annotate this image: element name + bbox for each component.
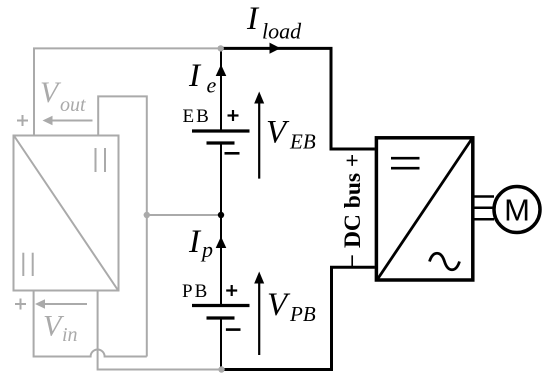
arrow I_p: [216, 237, 227, 249]
motor M1 circle: [494, 187, 540, 233]
svg-text:load: load: [262, 19, 302, 44]
node midpoint junction (black dot): [218, 212, 224, 218]
arrow I_e: [216, 65, 227, 77]
svg-text:M: M: [504, 193, 530, 228]
inverter U2 body: [376, 138, 472, 280]
node bottom junction (gray dot): [218, 366, 224, 372]
arrow V_PB: [254, 272, 264, 356]
svg-text:I: I: [246, 1, 260, 37]
wire phase C inverter to motor: [475, 218, 495, 221]
wire converter input+ with hop: [34, 291, 147, 357]
arrow V_EB: [254, 92, 264, 179]
label V_out: [40, 76, 86, 116]
svg-text:I: I: [188, 58, 202, 94]
wire top load path: [221, 48, 375, 149]
battery EB plates: [192, 131, 250, 143]
svg-text:out: out: [60, 94, 86, 116]
wire top node to EB positive plate: [220, 48, 222, 129]
svg-text:EB: EB: [183, 106, 211, 127]
inverter U2 AC mark: [430, 253, 460, 270]
svg-text:− DC bus +: − DC bus +: [340, 154, 366, 268]
svg-text:PB: PB: [182, 281, 209, 302]
arrow V_out: [43, 116, 93, 126]
wire phase A inverter to motor: [475, 195, 495, 198]
svg-text:e: e: [207, 73, 217, 98]
wire riser to battery midpoint: [147, 214, 221, 216]
wire EB negative plate to PB positive plate: [220, 144, 222, 304]
wire PB negative plate to bottom node: [220, 319, 222, 369]
svg-text:in: in: [62, 324, 78, 346]
inverter U2 diagonal: [378, 139, 473, 280]
label V_in: [43, 310, 78, 347]
minus EB: [225, 152, 240, 155]
wire bottom return path: [222, 267, 375, 369]
minus PB: [226, 328, 241, 331]
plus V_in: [15, 299, 26, 310]
plus EB: [228, 110, 239, 121]
plus PB: [226, 285, 237, 296]
wire converter output+ to top node: [34, 48, 221, 135]
converter U1 input-side mark: [22, 253, 24, 276]
converter U1 output-side mark: [95, 148, 97, 172]
node riser junction (gray dot): [144, 212, 150, 218]
battery PB plates: [192, 306, 250, 319]
inverter U2 DC mark: [391, 157, 420, 160]
arrow I_load: [270, 43, 281, 54]
svg-text:PB: PB: [289, 302, 316, 326]
plus V_out: [17, 115, 28, 126]
svg-text:EB: EB: [289, 129, 316, 153]
arrow V_in: [35, 299, 87, 309]
converter U1 body: [14, 136, 119, 291]
svg-text:p: p: [200, 237, 213, 262]
node top junction (gray dot): [218, 45, 224, 51]
svg-text:I: I: [188, 224, 202, 260]
converter U1 diagonal: [15, 137, 118, 290]
wire converter input- to bottom node: [98, 291, 222, 370]
wire converter output- riser: [98, 96, 147, 356]
wire phase B inverter to motor: [475, 206, 495, 209]
